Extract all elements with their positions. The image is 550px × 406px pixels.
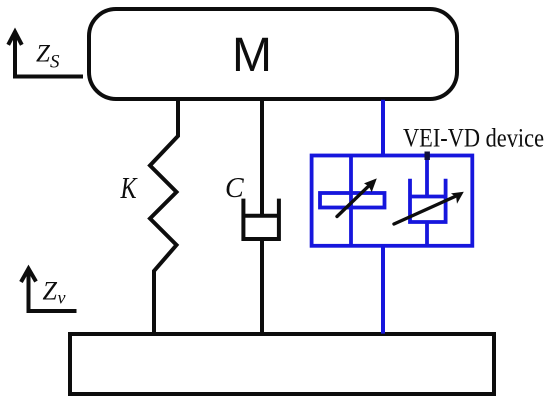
svg-text:VEI-VD device: VEI-VD device [403, 124, 544, 153]
mass label M [232, 29, 272, 82]
damper C cylinder cup [243, 199, 279, 239]
VEI-VD device box [312, 156, 473, 246]
variable damper cylinder cup [410, 179, 446, 222]
axis marker Z_v arrow [21, 268, 77, 311]
variable damper rod lower [425, 222, 429, 246]
label Z_v [43, 277, 66, 308]
svg-text:S: S [50, 52, 60, 73]
dark junction tick at damper rod top [425, 152, 430, 161]
damper C rod lower [260, 239, 264, 336]
wire blue rod from device to base [381, 246, 385, 334]
label C [225, 173, 244, 204]
damper C piston plate [243, 214, 279, 218]
svg-text:Z: Z [43, 277, 58, 306]
variable damper rod upper (right element) [425, 156, 429, 197]
label Z_S [36, 41, 60, 73]
label K [120, 171, 138, 206]
mass M block [89, 9, 457, 99]
spring K [150, 99, 178, 336]
svg-text:M: M [232, 29, 272, 82]
variable arrow over damper [394, 192, 464, 224]
svg-text:K: K [120, 171, 138, 206]
inerter plate rectangle [320, 193, 385, 208]
variable damper piston plate [410, 195, 446, 199]
inerter divider rod (left element) [349, 156, 353, 246]
svg-text:C: C [225, 173, 244, 204]
label VEI-VD device [403, 124, 544, 153]
base ground block [70, 334, 494, 394]
axis marker Z_S arrow [8, 32, 83, 78]
svg-text:v: v [58, 288, 66, 308]
damper C rod upper [260, 99, 264, 216]
wire blue rod from mass to device [381, 100, 385, 157]
svg-text:Z: Z [36, 41, 51, 68]
variable arrow over inerter [337, 178, 377, 216]
